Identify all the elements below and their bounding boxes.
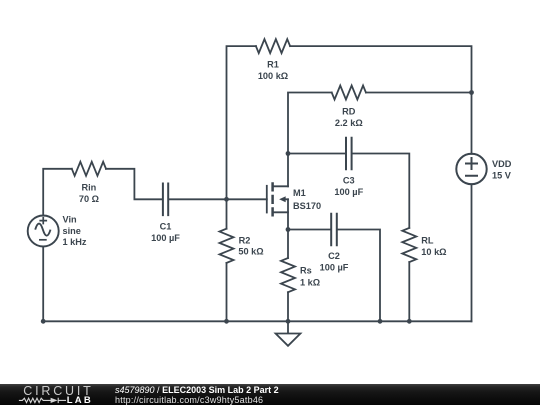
- node bus RL: [407, 319, 412, 324]
- capacitor C2: [331, 214, 337, 246]
- svg-text:10 kΩ: 10 kΩ: [421, 247, 446, 257]
- svg-text:100 µF: 100 µF: [320, 263, 349, 273]
- voltage source Vin: [28, 216, 59, 247]
- wire source node to C2 left plate: [288, 229, 330, 231]
- wire VDD bottom to bus corner: [471, 184, 473, 321]
- node drain junction: [286, 151, 291, 156]
- ground: [276, 321, 301, 346]
- svg-text:LAB: LAB: [67, 394, 93, 405]
- resistor R2: [220, 229, 234, 263]
- svg-text:1 kHz: 1 kHz: [63, 237, 87, 247]
- wire bottom bus: [43, 320, 471, 322]
- svg-text:100 kΩ: 100 kΩ: [258, 71, 288, 81]
- svg-text:RD: RD: [342, 107, 356, 117]
- node bus ground: [286, 319, 291, 324]
- node VDD top junction: [469, 90, 474, 95]
- capacitor C3: [346, 138, 352, 170]
- node gate junction: [224, 197, 229, 202]
- node bus R2: [224, 319, 229, 324]
- svg-text:BS170: BS170: [293, 201, 321, 211]
- wire gate node up to R1 left: [227, 46, 256, 199]
- svg-text:2.2 kΩ: 2.2 kΩ: [335, 118, 363, 128]
- wire Vin bottom to bus: [42, 247, 44, 322]
- svg-text:70 Ω: 70 Ω: [79, 194, 99, 204]
- resistor Rs: [281, 258, 295, 292]
- node bus Vin: [41, 319, 46, 324]
- svg-text:1 kΩ: 1 kΩ: [300, 277, 320, 287]
- capacitor C1: [163, 184, 168, 216]
- CircuitLab logo: [0, 385, 110, 405]
- footer text: [115, 386, 279, 405]
- svg-text:C3: C3: [343, 176, 355, 186]
- wire M1 source/body down to source node: [287, 199, 289, 229]
- svg-text:Rs: Rs: [300, 266, 312, 276]
- wire RD right to VDD column: [366, 92, 472, 94]
- svg-text:C1: C1: [160, 222, 172, 232]
- svg-text:100 µF: 100 µF: [151, 233, 180, 243]
- svg-text:50 kΩ: 50 kΩ: [238, 247, 263, 257]
- wire R1 right down to VDD top: [290, 46, 471, 154]
- svg-text:R2: R2: [239, 235, 251, 245]
- transistor M1: [267, 182, 288, 216]
- svg-text:M1: M1: [293, 188, 306, 198]
- node source junction: [286, 227, 291, 232]
- resistor RL: [402, 228, 416, 262]
- svg-text:sine: sine: [63, 226, 81, 236]
- wire RL bottom to bus: [408, 262, 410, 321]
- svg-text:Rin: Rin: [81, 183, 96, 193]
- wire source node down to Rs top: [287, 230, 289, 259]
- wire gate node down to R2 top: [226, 199, 228, 228]
- svg-text:VDD: VDD: [492, 159, 512, 169]
- wire Vin top to Rin left lead: [43, 169, 72, 216]
- wire R2 bottom to bus: [226, 263, 228, 321]
- svg-text:C2: C2: [328, 251, 340, 261]
- svg-text:Vin: Vin: [63, 215, 78, 225]
- wire drain up to RD left: [288, 93, 332, 187]
- resistor R1: [256, 39, 290, 53]
- wire Rin right to C1 left plate: [106, 169, 162, 200]
- wire C2 right down to bus: [338, 230, 380, 322]
- wire C3 right down to RL top: [353, 154, 410, 228]
- node bus C2: [378, 319, 383, 324]
- wire C1 right to gate node to M1 gate: [169, 198, 267, 200]
- svg-text:R1: R1: [267, 60, 279, 70]
- voltage source VDD: [456, 154, 486, 184]
- svg-text:100 µF: 100 µF: [334, 187, 363, 197]
- resistor RD: [332, 86, 366, 100]
- wire Rs bottom to bus: [287, 292, 289, 321]
- wire drain node to C3 left plate: [288, 153, 345, 155]
- footer bar: [0, 384, 540, 405]
- resistor Rin: [72, 162, 106, 176]
- svg-text:RL: RL: [421, 236, 434, 246]
- svg-text:15 V: 15 V: [492, 170, 512, 180]
